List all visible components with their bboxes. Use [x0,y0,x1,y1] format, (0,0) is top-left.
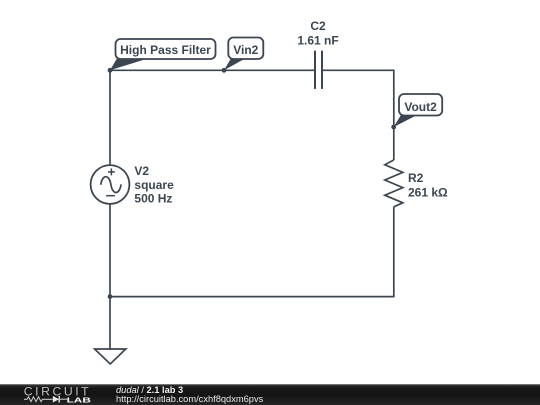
svg-text:C2: C2 [310,19,326,33]
svg-text:http://circuitlab.com/cxhf8qdx: http://circuitlab.com/cxhf8qdxm6pvs [116,394,264,404]
resistor R2 [385,160,403,207]
wire left vertical upper (node Vin to V2 top) [109,70,111,165]
node junction bottom-left [108,294,113,299]
voltage source V2 [91,165,130,204]
svg-text:square: square [134,178,174,192]
svg-text:V2: V2 [134,164,149,178]
node Vin2 dot [222,68,227,73]
wire top-right (C2 right plate to right column) [323,69,394,71]
capacitor C2 [315,51,322,89]
svg-text:High Pass Filter: High Pass Filter [120,43,211,57]
svg-text:1.61 nF: 1.61 nF [297,34,338,48]
wire right vertical upper (to R2 top) [393,70,395,161]
node Vin (junction dot) [108,68,113,73]
flag label High Pass Filter [110,39,216,70]
wire right vertical lower (R2 bottom to bottom rail) [393,207,395,298]
wire top-left (node Vin to C2 left plate) [110,69,314,71]
svg-text:500 Hz: 500 Hz [134,192,172,206]
svg-text:LAB: LAB [67,396,92,405]
flag label Vin2 [224,38,263,71]
wire bottom rail [110,296,394,298]
svg-text:Vin2: Vin2 [233,43,258,57]
wire left vertical lower (V2 bottom to bottom rail) [109,204,111,297]
svg-text:R2: R2 [408,171,424,185]
CircuitLab logo diode [53,396,59,403]
ground [95,349,126,364]
node Vout2 dot [391,125,396,130]
flag label Vout2 [394,94,443,127]
footer bar [0,384,540,405]
svg-text:261 kΩ: 261 kΩ [408,186,448,200]
wire ground stem [109,297,111,349]
CircuitLab logo resistor zigzag [24,397,53,402]
svg-text:Vout2: Vout2 [404,100,437,114]
